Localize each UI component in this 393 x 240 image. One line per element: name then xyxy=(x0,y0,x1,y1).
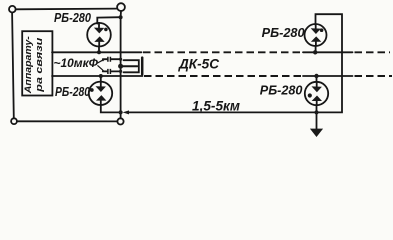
wire to arrester F1 top xyxy=(97,17,120,23)
svg-text:РБ-280: РБ-280 xyxy=(260,83,303,98)
capacitor C2 10мкФ (lower) xyxy=(103,70,121,72)
svg-text:ра связи: ра связи xyxy=(33,37,44,93)
wire line 2 dashed cable run xyxy=(144,75,303,77)
connector socket bracket xyxy=(124,60,139,72)
svg-text:РБ-280: РБ-280 xyxy=(55,85,90,99)
node: F1 to line 1 xyxy=(97,50,101,54)
node: F2 to line 2 xyxy=(99,74,103,78)
node: loop junction J1 xyxy=(119,110,123,114)
node: connector to bus (main junction) xyxy=(118,64,123,69)
arrester F1 bottom stub xyxy=(98,46,100,52)
node: C2 to bus xyxy=(119,70,122,73)
node: F4 wire crosses loop xyxy=(314,110,318,114)
svg-text:Аппарату-: Аппарату- xyxy=(22,36,33,94)
capacitor C1 10мкФ (upper) xyxy=(103,58,121,60)
wire bottom edge xyxy=(17,120,117,122)
box Аппаратура связи xyxy=(22,31,52,95)
terminal B xyxy=(117,3,125,11)
measurement loop wire 1,5-5км with arrowhead xyxy=(127,14,342,112)
arrester F3 РБ-280 (top-right) xyxy=(305,24,327,46)
arrester F4 top stub xyxy=(316,76,318,82)
arrester F4 РБ-280 (bottom-right) xyxy=(305,82,328,105)
svg-text:ДК-5С: ДК-5С xyxy=(178,57,219,72)
node: F4 to line 2 xyxy=(314,74,318,78)
arrester F4 ground wire xyxy=(316,105,318,129)
wire left edge xyxy=(12,13,14,119)
arrester F3 bottom stub xyxy=(315,46,317,53)
terminal C xyxy=(11,118,17,124)
wire line 1 dashed cable run xyxy=(143,51,303,53)
arrester F2 bottom wire xyxy=(101,105,121,113)
wire line 2 (bottom cable conductor, solid part) xyxy=(52,75,143,77)
ground xyxy=(310,129,323,137)
wire line 2 solid at right arrester xyxy=(303,75,353,77)
arrester F1 РБ-280 (top-left) xyxy=(87,23,111,47)
arrester F2 РБ-280 (bottom-left) xyxy=(89,82,112,105)
connector (plug symbol) tongue xyxy=(121,65,138,67)
arrester F2 top stub xyxy=(100,76,102,82)
node: C1 to bus xyxy=(119,58,122,61)
svg-text:~10мкФ: ~10мкФ xyxy=(54,56,99,70)
wire line 1 solid at right arrester xyxy=(303,51,353,53)
svg-text:1,5-5км: 1,5-5км xyxy=(192,98,240,113)
node: F3 to line 1 xyxy=(313,50,317,54)
terminal D xyxy=(117,118,123,124)
svg-text:РБ-280: РБ-280 xyxy=(262,25,305,40)
wire from terminal B down (right bus) xyxy=(120,11,122,118)
leader arrows from label 10мкФ xyxy=(98,60,103,70)
node: B bus junction xyxy=(119,15,123,19)
wire line 2 dashed to edge xyxy=(355,75,393,77)
wire line 1 (top cable conductor, solid part) xyxy=(52,51,142,53)
wire line 1 dashed to edge xyxy=(355,51,391,53)
svg-text:РБ-280: РБ-280 xyxy=(54,11,91,25)
wire top edge xyxy=(16,8,117,11)
connector pin bar xyxy=(141,58,144,75)
terminal A xyxy=(9,6,16,13)
